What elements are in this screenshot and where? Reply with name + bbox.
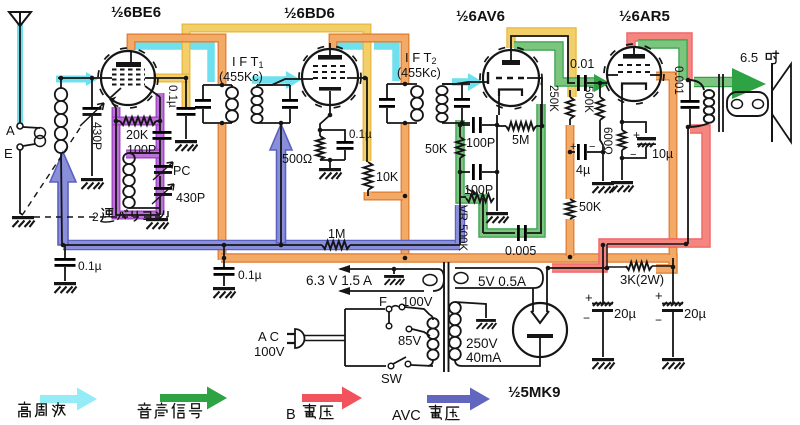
tube U2 cathode	[319, 87, 341, 91]
svg-text:50K: 50K	[579, 200, 602, 214]
wire hv bottom to rectifier	[462, 357, 540, 366]
svg-text:½6AR5: ½6AR5	[619, 8, 670, 25]
wire cathode bottom	[320, 159, 345, 161]
svg-text:3K(2W): 3K(2W)	[620, 272, 664, 287]
inductor IFT2 secondary	[436, 86, 447, 122]
svg-text:430P: 430P	[176, 191, 205, 205]
svg-text:1M: 1M	[328, 227, 345, 241]
wire osc cathode line	[116, 108, 160, 215]
wire cyan 6BE6 plate to IFT1 flow	[135, 46, 211, 82]
wire AVC bus	[62, 244, 322, 246]
gang dashed link 2-gang condenser	[23, 128, 168, 217]
tube U3 cathode	[499, 90, 522, 97]
svg-text:B: B	[286, 407, 296, 423]
tube U4 cathode	[622, 84, 646, 91]
terminal A	[17, 123, 23, 129]
capacitor 20u input	[601, 243, 606, 248]
capacitor 4u decoupling	[568, 150, 573, 155]
capacitor 430P tuning	[91, 78, 93, 107]
svg-text:0.1µ: 0.1µ	[78, 259, 102, 273]
svg-text:100P: 100P	[127, 143, 156, 157]
capacitor 430P osc	[154, 187, 172, 190]
inductor IFT1 primary	[226, 87, 238, 122]
svg-text:5V 0.5A: 5V 0.5A	[478, 274, 526, 289]
wire screen to 10K	[365, 78, 367, 162]
tube U1 grids	[112, 70, 145, 85]
legend arrow audio	[160, 387, 227, 410]
label legend RF	[19, 402, 30, 417]
tube U2 plate	[318, 55, 342, 60]
resistor 600ohm	[618, 130, 626, 150]
resistor 10K	[364, 162, 373, 190]
svg-text:20K: 20K	[126, 128, 149, 142]
tube U3 grid	[496, 77, 527, 80]
svg-text:100V: 100V	[254, 344, 285, 359]
svg-text:E: E	[4, 146, 13, 161]
wire audio risers	[527, 104, 541, 233]
tube U1 plate	[116, 62, 141, 67]
wire purple oscillator grid side	[156, 93, 165, 215]
tube U1 6BE6	[101, 51, 155, 105]
terminal E	[17, 144, 23, 150]
svg-text:10µ: 10µ	[652, 147, 673, 161]
ground 4u	[592, 182, 615, 193]
wire raw B+	[548, 267, 607, 269]
tube U4 6AR5	[607, 47, 661, 101]
resistor 50K detector	[456, 137, 464, 158]
capacitor 20u output	[671, 265, 676, 270]
ground 6AV6 cathode	[486, 212, 509, 223]
svg-text:6.3 V 1.5 A: 6.3 V 1.5 A	[306, 273, 372, 288]
wire AVC to IFT1 secondary arrow	[270, 124, 292, 243]
svg-text:250V: 250V	[466, 336, 498, 351]
capacitor IFT2 primary	[379, 98, 395, 101]
wire cyan antenna lead highlight	[17, 24, 23, 126]
svg-text:0.1µ: 0.1µ	[349, 129, 372, 141]
capacitor 0.005	[517, 225, 520, 241]
resistor 250K	[569, 36, 571, 97]
svg-text:½5MK9: ½5MK9	[508, 384, 561, 401]
inductor IFT2 primary	[411, 86, 423, 121]
rectifier winding 5V	[455, 268, 543, 288]
svg-text:(455Kc): (455Kc)	[397, 66, 441, 80]
wire AVC to antenna coil arrow	[50, 152, 76, 245]
legend arrow AVC	[427, 388, 490, 411]
ground E	[12, 216, 35, 227]
capacitor 0.1u B+ bypass	[222, 243, 227, 248]
wire orange IFT2 primary to bus	[401, 124, 410, 258]
tube U2 leads	[301, 78, 313, 80]
node IFT1 primary bottom	[220, 121, 225, 126]
wire red output transformer loop	[552, 129, 706, 268]
svg-text:500Ω: 500Ω	[282, 152, 312, 166]
svg-text:(455Kc): (455Kc)	[219, 70, 263, 84]
svg-text:½6BE6: ½6BE6	[111, 4, 161, 21]
wire green 6AR5 plate to speaker	[638, 44, 683, 80]
node OT primary bottom	[686, 125, 691, 130]
wire orange 6AR5 screen feed	[656, 76, 673, 255]
ground 6AR5 cathode	[611, 181, 634, 192]
ground 20u input	[592, 358, 615, 369]
svg-text:−: −	[655, 313, 662, 327]
wire hv top to ground	[455, 302, 486, 318]
node bus IFT2 column	[403, 256, 408, 261]
tube U3 6AV6	[483, 50, 539, 106]
node IFT2 secondary bottom	[460, 121, 465, 126]
svg-text:20µ: 20µ	[614, 306, 636, 321]
svg-text:430P: 430P	[90, 122, 104, 150]
wire 6BE6 screen to bypass	[155, 78, 186, 107]
node AVC junction IFT1	[279, 243, 284, 248]
node antenna coil top	[59, 76, 64, 81]
svg-text:85V: 85V	[398, 333, 421, 348]
wire AVC tap IFT1	[280, 123, 282, 244]
wire IFT2 sec bottom chain	[459, 123, 461, 137]
wire red 6AR5 plate B+	[631, 37, 688, 80]
wire AVC from volume control	[455, 205, 465, 243]
svg-text:AVC: AVC	[392, 408, 421, 424]
resistor 20K	[120, 117, 156, 125]
svg-text:SW: SW	[381, 371, 403, 386]
capacitor 0.01	[577, 75, 580, 91]
wire cyan IFT1 to 6BD6 grid flow	[252, 76, 288, 84]
wire orange IFT1 primary to bus	[218, 124, 227, 260]
wire orange B+ bus	[221, 258, 673, 269]
tube U5 filament	[531, 311, 549, 323]
resistor 3K 2W	[607, 266, 626, 268]
svg-text:+: +	[655, 288, 663, 303]
transformer OT core	[719, 74, 723, 132]
node IFT2 primary top	[403, 82, 408, 87]
svg-text:−: −	[583, 311, 590, 325]
capacitor IFT1 secondary	[282, 99, 298, 102]
ground 20u output	[662, 358, 685, 369]
svg-text:0.1µ: 0.1µ	[166, 85, 178, 108]
oscillator coil L3	[129, 152, 160, 154]
resistor 500K	[599, 83, 601, 97]
wire yellow 6AV6 plate load	[511, 32, 572, 97]
tube U5 plate	[527, 334, 553, 338]
voice coil	[727, 92, 768, 116]
wire orange 10K screen dropper link	[368, 192, 403, 196]
hv winding 250V	[454, 288, 456, 300]
resistor 1M	[322, 241, 350, 249]
node IFT1 primary top	[220, 83, 225, 88]
capacitor IFT2 secondary	[454, 98, 470, 101]
tube U3 plate	[502, 60, 520, 65]
svg-text:5M: 5M	[512, 133, 529, 147]
capacitor 100P lower	[460, 171, 470, 173]
inductor IFT1 secondary	[251, 87, 262, 123]
transformer IFT1 frame	[203, 84, 232, 86]
wire IFT2 secondary to 6AV6 diode	[442, 82, 484, 84]
tube U4 leads	[607, 74, 618, 76]
capacitor PC padder	[154, 165, 172, 168]
node heater CT	[392, 267, 397, 272]
node 6BD6 screen	[363, 76, 368, 81]
wire green detector audio chain	[460, 104, 541, 233]
label legend audio	[138, 403, 151, 418]
antenna coil L2	[58, 77, 101, 79]
wire IFT1 secondary to 6BD6 grid	[257, 79, 301, 85]
wire AVC bus highlight	[63, 240, 460, 250]
ground 0.1u AVC left	[54, 282, 77, 293]
svg-text:½6BD6: ½6BD6	[284, 5, 335, 22]
transformer PT primary	[430, 315, 433, 320]
capacitor 100P osc	[153, 131, 172, 134]
wire plate coupling	[511, 36, 575, 83]
ground 6BD6 cathode	[319, 168, 342, 179]
svg-text:100P: 100P	[466, 136, 495, 150]
resistor 500ohm	[316, 136, 324, 160]
capacitor 0.1u AVC left	[61, 243, 66, 248]
switch SW	[388, 363, 394, 369]
wire audio to coupling cap	[483, 232, 515, 234]
svg-text:A C: A C	[258, 329, 279, 344]
svg-text:500K: 500K	[582, 86, 594, 113]
svg-text:½6AV6: ½6AV6	[456, 8, 505, 25]
ground oscillator	[146, 218, 169, 229]
svg-text:PC: PC	[173, 164, 190, 178]
wire cyan IFT2 to 6AV6 diode flow	[452, 78, 470, 86]
wire cyan grid-1 highlight 6BE6	[56, 76, 88, 83]
capacitor 0.1u cathode 6BD6	[337, 141, 354, 144]
tube U4 plate	[623, 54, 645, 59]
wire to 10u	[622, 122, 646, 133]
capacitor 100P upper	[460, 124, 470, 126]
svg-text:6.5: 6.5	[740, 50, 758, 65]
wire mains branches	[344, 309, 346, 366]
svg-text:250K: 250K	[547, 85, 559, 112]
legend arrow B voltage	[302, 387, 362, 410]
wire OT bottom feed	[687, 127, 689, 244]
wire orange 6BD6 plate B+ feed	[333, 38, 405, 84]
tube U2 grids	[313, 66, 347, 78]
svg-text:0.1µ: 0.1µ	[238, 268, 262, 282]
svg-text:0.005: 0.005	[505, 244, 536, 258]
svg-text:A: A	[6, 123, 15, 138]
svg-text:0.01: 0.01	[570, 57, 594, 71]
svg-text:4µ: 4µ	[576, 163, 590, 177]
svg-text:20µ: 20µ	[684, 306, 706, 321]
speaker	[771, 63, 773, 142]
wire AVC takeoff	[459, 199, 461, 245]
transformer OT primary	[688, 80, 704, 90]
tube U2 6BD6	[302, 49, 358, 105]
wire osc grid line	[159, 97, 161, 131]
svg-text:0.001: 0.001	[672, 66, 684, 95]
coupling coil L1	[23, 127, 40, 128]
svg-text:−: −	[589, 141, 595, 153]
tap 85V	[406, 326, 412, 332]
ground hv winding	[476, 319, 496, 329]
node bus 6AV6 column	[568, 255, 573, 260]
svg-text:50K: 50K	[425, 142, 448, 156]
wire cyan 6BD6 plate to IFT2 flow	[336, 42, 363, 50]
ground 430P	[81, 178, 104, 189]
legend arrow RF	[40, 388, 97, 411]
svg-text:−: −	[630, 149, 636, 161]
node IFT2 primary bottom	[403, 121, 408, 126]
potentiometer VR 500K	[460, 196, 466, 198]
ground 0.1u bypass	[213, 287, 236, 298]
svg-text:2: 2	[92, 210, 99, 224]
ground 0.1u screen	[175, 140, 198, 151]
transformer IFT2 frame	[387, 83, 417, 85]
antenna	[9, 12, 31, 26]
resistor 5M	[497, 125, 506, 127]
capacitor IFT1 primary	[195, 99, 211, 102]
tube U1 cathode	[110, 88, 121, 98]
wire purple oscillator cathode side	[116, 107, 160, 215]
wire 100V tap	[405, 307, 430, 315]
svg-text:10K: 10K	[376, 170, 399, 184]
heater winding 6.3V	[340, 268, 438, 270]
svg-text:600Ω: 600Ω	[601, 127, 613, 155]
svg-text:F: F	[379, 294, 387, 309]
wire purple osc coil top link	[126, 150, 160, 159]
tube U5 5MK9	[513, 303, 567, 357]
tube U3 grid lead right	[527, 78, 542, 126]
transformer PT core	[444, 262, 449, 372]
wire yellow screen B+ rail	[186, 28, 367, 161]
svg-text:+: +	[585, 290, 593, 305]
node cathode 6AR5	[620, 120, 625, 125]
tube U1 grid leads	[101, 77, 112, 79]
node grid 430P	[90, 76, 95, 81]
wire orange 6AV6 supply branch	[566, 125, 575, 199]
wire green 6AV6 plate audio path	[514, 46, 595, 82]
tube U3 diode plate	[487, 72, 489, 84]
wire yellow 6BE6 screen stub	[153, 74, 189, 83]
node osc 20K left	[114, 119, 119, 124]
wire 6AV6 cathode ground line	[496, 115, 498, 211]
capacitor 0.1u screen	[177, 107, 196, 110]
ground heater CT	[384, 275, 404, 285]
capacitor 0.001 tone	[688, 80, 690, 100]
svg-text:40mA: 40mA	[466, 350, 501, 365]
wire grid node 6AR5	[587, 82, 607, 84]
wire 6AR5 plate run	[633, 47, 635, 51]
node B+ takeoff	[546, 266, 551, 271]
node IFT1 secondary bottom	[279, 121, 284, 126]
node OT primary top	[686, 78, 691, 83]
svg-text:+: +	[570, 141, 576, 153]
wire E to ground	[20, 150, 23, 215]
wire orange 6BE6 plate B+ feed	[131, 38, 222, 84]
wire purple 20K link	[113, 117, 160, 126]
resistor 50K dropper	[566, 199, 575, 219]
tube U4 grids	[618, 65, 650, 72]
node screen	[184, 76, 189, 81]
wire 6BD6 cathode	[320, 105, 330, 136]
